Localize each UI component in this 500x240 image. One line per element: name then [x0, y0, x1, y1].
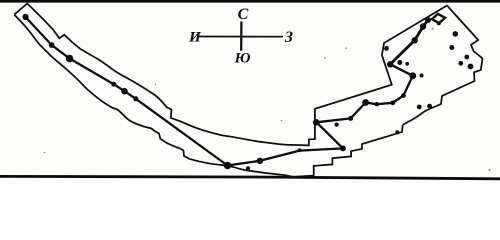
route town dot 19: [420, 23, 426, 29]
compass cross horizontal: [199, 36, 283, 38]
route thick climb segment: [390, 20, 428, 64]
scatter dot c: [335, 123, 339, 127]
route polyline left section: [26, 17, 429, 166]
scatter dot g: [427, 104, 432, 109]
route town dot 14: [390, 100, 395, 105]
route town dot 6: [133, 96, 138, 101]
scatter dot j: [384, 46, 389, 51]
route town dot 8: [257, 158, 263, 164]
city square marker near apex: [432, 14, 445, 23]
svg-text:И: И: [188, 30, 202, 46]
scatter dot d: [395, 130, 399, 134]
faint scan speckles: [44, 28, 491, 171]
svg-text:С: С: [238, 6, 249, 23]
corridor outline: right jagged boundary of polygon: [14, 6, 482, 177]
route town dot 4: [111, 82, 116, 87]
top border rule: [0, 0, 500, 3]
route town dot 5: [121, 88, 128, 95]
scatter dot k: [449, 45, 454, 50]
route small dot 8b: [298, 148, 302, 152]
route town dot 2: [49, 42, 55, 48]
marker bottom vertex blob: [437, 21, 441, 25]
route junction dot 10: [313, 119, 320, 126]
route town dot 1: [22, 14, 28, 20]
route town dot 16: [409, 72, 416, 79]
svg-text:Ю: Ю: [234, 51, 251, 67]
bottom border rule: [0, 176, 500, 178]
route town dot 9: [340, 146, 346, 152]
scatter dot p: [453, 31, 459, 37]
svg-text:З: З: [284, 29, 293, 46]
route town dot 7 valley: [224, 162, 231, 169]
compass cross vertical: [240, 22, 242, 51]
corridor outline: upper/left boundary from cap to polygon apex: [14, 4, 447, 146]
route town dot 3: [66, 55, 74, 63]
route town dot 15: [401, 93, 406, 98]
scatter dot i: [405, 62, 409, 66]
scatter dot a: [246, 166, 250, 170]
scatter dot h: [397, 60, 402, 65]
route town dot 12: [362, 99, 369, 106]
scatter dot m: [464, 55, 469, 60]
scatter dot s: [420, 74, 424, 78]
route town dot 18: [412, 37, 418, 43]
route town dot 13: [375, 102, 379, 106]
route end dot at city marker: [425, 17, 431, 23]
scatter dot n: [458, 61, 463, 66]
scatter dot o big: [468, 64, 474, 70]
route town dot 11: [348, 116, 353, 121]
route town dot 17: [387, 61, 393, 67]
scatter dot f: [417, 105, 422, 110]
